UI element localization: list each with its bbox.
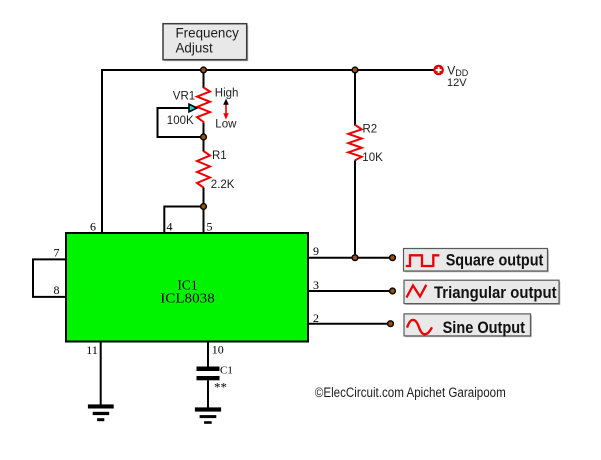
wire: pins 7-8 short loop: [33, 259, 66, 297]
wire: R2 top: [354, 70, 356, 126]
svg-text:Triangular output: Triangular output: [434, 283, 557, 302]
ground: pin 11: [88, 404, 114, 421]
svg-text:Frequency: Frequency: [176, 25, 240, 40]
svg-text:4: 4: [167, 220, 173, 234]
svg-text:9: 9: [313, 244, 319, 258]
svg-text:2.2K: 2.2K: [211, 179, 235, 191]
wire: VR1 to R1: [203, 123, 205, 152]
label box: Square output: [404, 249, 549, 273]
svg-text:High: High: [215, 88, 239, 100]
wire: VDD rail and pin 6 riser: [102, 70, 434, 233]
svg-text:Low: Low: [215, 118, 237, 130]
wire: pin 11 to ground: [100, 342, 102, 406]
svg-text:8: 8: [54, 283, 60, 297]
svg-text:IC1: IC1: [177, 277, 197, 292]
wire: wiper feedback loop: [158, 108, 202, 137]
wire: C1 to ground: [207, 380, 209, 408]
wire: R2 bottom to pin 9: [354, 160, 356, 257]
svg-text:V: V: [447, 63, 455, 77]
svg-text:R2: R2: [363, 123, 378, 135]
svg-text:5: 5: [207, 220, 213, 234]
node: junction pin 9 / R2: [352, 255, 358, 261]
wire: pin 3 output: [308, 290, 393, 292]
node: junction VR1 top: [201, 67, 207, 73]
svg-text:C1: C1: [220, 365, 233, 377]
svg-text:12V: 12V: [447, 77, 467, 89]
wire: pin 9 output: [308, 257, 393, 259]
svg-text:ICL8038: ICL8038: [160, 292, 215, 307]
svg-text:100K: 100K: [167, 115, 194, 127]
wire: R1 bottom to pin 5: [203, 188, 205, 234]
svg-text:Adjust: Adjust: [176, 41, 213, 56]
wire: pin 10 to C1: [207, 342, 209, 368]
potentiometer VR1 zigzag: [197, 88, 210, 124]
terminal: square output: [390, 255, 396, 261]
terminal: triangular output: [390, 288, 396, 294]
svg-text:10K: 10K: [362, 152, 383, 164]
svg-text:6: 6: [90, 220, 96, 234]
power: VDD terminal: [434, 63, 469, 89]
node: junction R2 top: [352, 67, 358, 73]
svg-text:©ElecCircuit.com Apichet Garai: ©ElecCircuit.com Apichet Garaipoom: [315, 385, 506, 400]
svg-text:Square output: Square output: [446, 251, 544, 270]
svg-text:3: 3: [313, 278, 319, 292]
wiper of VR1: [189, 104, 197, 112]
svg-text:**: **: [214, 380, 227, 395]
svg-text:10: 10: [212, 343, 224, 357]
label box: Sine Output: [404, 314, 532, 337]
IC U1 body: [66, 233, 308, 342]
svg-text:11: 11: [86, 343, 98, 357]
svg-text:VR1: VR1: [173, 91, 195, 103]
node: junction R1 bottom: [201, 204, 207, 210]
ground: C1: [195, 407, 221, 423]
wire: branch to pin 4: [164, 207, 203, 234]
capacitor C1: [197, 365, 233, 395]
node: junction VR1 bottom: [201, 134, 207, 140]
label box: Frequency Adjust: [163, 24, 248, 62]
svg-text:2: 2: [313, 311, 319, 325]
label box: Triangular output: [404, 280, 560, 305]
wire: pin 2 output: [308, 323, 391, 325]
terminal: sine output: [388, 321, 394, 327]
svg-text:R1: R1: [212, 150, 227, 162]
svg-text:Sine Output: Sine Output: [443, 318, 526, 337]
arrow: frequency high/low: [223, 99, 229, 120]
resistor R2 zigzag: [348, 125, 361, 161]
wire: VDD rail to VR1: [203, 70, 205, 88]
svg-text:7: 7: [54, 245, 60, 259]
resistor R1 zigzag: [197, 151, 210, 188]
